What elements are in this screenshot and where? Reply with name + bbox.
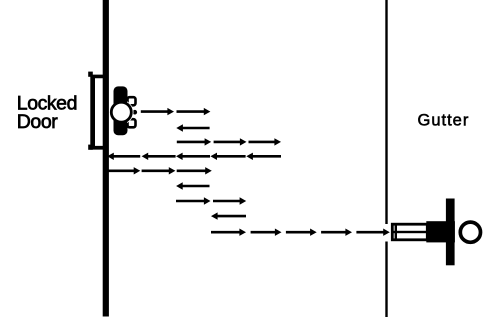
arrow row3 step3 right xyxy=(249,138,282,145)
arrow row5 step3 right xyxy=(177,167,212,174)
arrow row2 step1 left xyxy=(176,124,209,131)
man1 head xyxy=(111,102,131,122)
arrow row9 step1 right xyxy=(211,229,246,236)
man2 torso xyxy=(426,221,455,242)
man at the door (top view) xyxy=(109,86,137,135)
wall (left, locked-door wall) xyxy=(103,0,109,317)
door hinge tab bottom xyxy=(88,145,93,150)
arrow row6 step1 left xyxy=(176,182,209,189)
man1 nose xyxy=(133,110,138,115)
man in the gutter (lying down, top view) xyxy=(391,199,481,266)
man1 shoulders xyxy=(114,86,128,135)
wall (right, gutter kerb line) upper segment xyxy=(385,0,387,224)
man2 head xyxy=(460,222,480,242)
man2 legs outline xyxy=(392,224,427,240)
svg-text:Door: Door xyxy=(17,111,58,133)
arrow row4 step4 left xyxy=(142,153,176,160)
arrow row4 step3 left xyxy=(176,153,210,160)
wall (right, gutter kerb line) lower segment xyxy=(385,242,387,318)
arrow row3 step2 right xyxy=(214,138,247,145)
arrow row4 step2 left xyxy=(210,153,245,160)
arrow row1 step1 right xyxy=(141,108,174,115)
arrow row5 step1 right (from wall) xyxy=(106,167,140,174)
arrow row9 step3 right xyxy=(286,229,317,236)
man2 legs mid line xyxy=(391,231,428,233)
arrow row9 step5 right (reaches gutter) xyxy=(356,229,389,236)
door hinge tab top xyxy=(88,72,93,77)
arrow row5 step2 right xyxy=(142,167,176,174)
arrow row9 step2 right xyxy=(251,229,282,236)
svg-text:Gutter: Gutter xyxy=(418,111,470,129)
man2 arms xyxy=(446,199,455,266)
arrow row4 step1 left xyxy=(246,153,281,160)
man1 head halo gap xyxy=(109,100,133,124)
arrow row8 step1 left xyxy=(211,212,246,219)
man2 feet divider xyxy=(395,223,397,241)
man1 hand bottom xyxy=(128,119,136,127)
arrow row3 step1 right xyxy=(177,138,211,145)
arrow row7 step2 right xyxy=(213,197,246,204)
man1 hand top xyxy=(128,97,136,105)
arrow row9 step4 right xyxy=(321,229,352,236)
arrow row7 step1 right xyxy=(176,197,211,204)
locked door frame xyxy=(90,75,104,150)
arrow row1 step2 right xyxy=(177,108,211,115)
arrow row4 step5 left (hits wall) xyxy=(107,153,140,160)
